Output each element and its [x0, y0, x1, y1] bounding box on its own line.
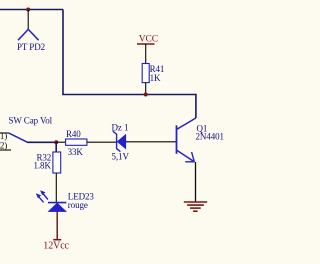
- wire top horizontal: [0, 9, 63, 11]
- pin R32 bottom to LED: [55, 173, 57, 203]
- resistor R40 body: [66, 139, 87, 145]
- svg-text:1.8K: 1.8K: [34, 161, 52, 171]
- svg-text:1K: 1K: [150, 73, 161, 83]
- diode Dz1 zener cathode bar: [113, 131, 121, 151]
- transistor Q1 emitter arrowhead barb vertical: [192, 152, 195, 162]
- svg-text:12Vcc: 12Vcc: [43, 241, 69, 252]
- LED23 arrow 1: [43, 194, 48, 200]
- svg-text:SW Cap Vol: SW Cap Vol: [9, 115, 53, 125]
- svg-text:(1): (1): [0, 131, 7, 141]
- svg-text:33K: 33K: [68, 147, 84, 157]
- switch pin 1 line: [0, 132, 9, 134]
- power VCC bar: [137, 43, 155, 45]
- junction dot R41: [144, 93, 148, 97]
- transistor Q1 collector diagonal: [177, 118, 196, 129]
- wire left vertical: [62, 10, 64, 95]
- pin zener to base: [126, 141, 177, 143]
- pin R41 bottom: [145, 83, 147, 95]
- switch lever: [9, 133, 28, 142]
- svg-text:VCC: VCC: [139, 35, 158, 45]
- wire junction to R32: [55, 142, 57, 152]
- PT PD2 photo sensor pin: [27, 10, 29, 29]
- pin R40 right to zener: [87, 141, 117, 143]
- wire lever to junction: [27, 141, 56, 143]
- svg-text:5,1V: 5,1V: [112, 151, 130, 161]
- svg-text:PT PD2: PT PD2: [17, 42, 45, 52]
- LED23 cathode bar: [48, 202, 66, 204]
- resistor R41 body: [142, 64, 149, 83]
- power 12Vcc bar: [53, 239, 61, 241]
- LED23 triangle: [48, 203, 66, 212]
- svg-text:(2): (2): [0, 140, 7, 150]
- switch pin 2 line: [0, 149, 11, 151]
- wire middle horizontal: [62, 94, 196, 96]
- resistor R32 body: [53, 152, 61, 173]
- svg-text:R40: R40: [66, 129, 81, 139]
- svg-text:Dz 1: Dz 1: [112, 123, 129, 133]
- PT PD2 fork symbol: [18, 29, 39, 40]
- LED23 arrow 2: [39, 197, 44, 203]
- transistor Q1 emitter diagonal: [177, 150, 195, 162]
- svg-text:2N4401: 2N4401: [196, 132, 224, 142]
- junction dot switch node: [54, 140, 58, 144]
- wire emitter down: [195, 162, 197, 202]
- pin R40 left: [56, 141, 65, 143]
- wire collector up: [195, 94, 197, 118]
- transistor Q1 base bar: [176, 125, 178, 154]
- junction dot top: [26, 8, 30, 12]
- diode Dz1 triangle: [117, 134, 126, 149]
- ground symbol: [184, 202, 207, 211]
- svg-text:rouge: rouge: [68, 200, 88, 210]
- pin VCC to R41: [145, 44, 147, 64]
- transistor Q1 emitter arrowhead barb horizontal: [185, 161, 194, 163]
- wire LED to 12Vcc: [56, 212, 58, 240]
